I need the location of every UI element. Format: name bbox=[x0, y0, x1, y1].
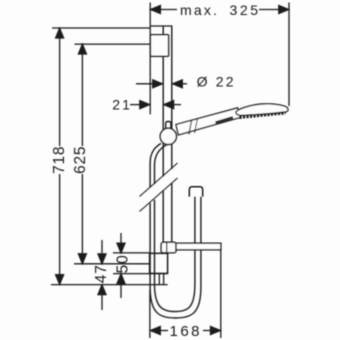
node: max325 left arrowhead bbox=[151, 6, 161, 14]
handle joint line 1 bbox=[189, 121, 192, 135]
handshower handle bbox=[176, 108, 240, 135]
svg-text:47: 47 bbox=[93, 264, 110, 283]
wire: 47 dimension line lower bbox=[101, 295, 103, 311]
node: 625 top arrowhead bbox=[78, 44, 86, 54]
node: 47 upper arrowhead pointing down bbox=[98, 254, 106, 264]
wire: 168 dimension line bbox=[160, 330, 168, 332]
wire: 50 dimension line lower bbox=[120, 284, 122, 298]
svg-text:168: 168 bbox=[170, 323, 203, 340]
wall bar tube right edge bbox=[171, 26, 173, 242]
wall bar tube left edge bbox=[162, 26, 164, 242]
bar bottom stub left bbox=[158, 274, 160, 285]
svg-text:625: 625 bbox=[72, 146, 89, 174]
shelf slider collar bbox=[161, 242, 176, 252]
wire: 625 top extension line bbox=[75, 43, 151, 45]
node: 47 lower arrowhead pointing up bbox=[98, 285, 106, 295]
node: 168 left arrowhead bbox=[151, 327, 161, 335]
wire: 718/47 bottom extension line bbox=[51, 284, 168, 286]
handshower head body bbox=[236, 104, 288, 116]
node: 625 bottom arrowhead bbox=[78, 254, 86, 264]
node: 718 bottom arrowhead bbox=[56, 275, 64, 285]
wire: 47 dimension line upper bbox=[101, 240, 103, 255]
wire: dimension max325 right extension line bbox=[288, 3, 290, 107]
node: 21 left arrowhead bbox=[140, 101, 150, 109]
slider knob stub bbox=[166, 122, 171, 130]
slider knob circle bbox=[160, 128, 176, 144]
wire: 718 top extension line bbox=[52, 27, 150, 29]
shelf collar divider bbox=[166, 243, 168, 252]
shelf arm bbox=[176, 243, 221, 250]
svg-text:718: 718 bbox=[51, 146, 68, 174]
wire: 718 dimension line bbox=[59, 37, 61, 146]
node: max325 right arrowhead bbox=[279, 6, 289, 14]
bar bottom stub right bbox=[163, 274, 165, 285]
wall bracket bottom box bbox=[150, 253, 168, 273]
hose outer edge bbox=[150, 143, 201, 318]
node: diameter22 left arrowhead bbox=[153, 80, 163, 88]
wire: max325 dimension line bbox=[159, 9, 177, 11]
wall bar top cap bbox=[150, 25, 172, 27]
wire: 168 right extension line bbox=[220, 250, 222, 338]
hose inner edge bbox=[155, 145, 195, 312]
wire: 168 left extension line bbox=[149, 290, 151, 338]
wire: 21 dimension line left bbox=[130, 104, 140, 106]
svg-text:Ø 22: Ø 22 bbox=[197, 74, 236, 90]
svg-text:max.: max. bbox=[180, 2, 219, 18]
hose end nub bbox=[189, 187, 202, 197]
node: diameter22 right arrowhead bbox=[173, 80, 183, 88]
wall bracket top box bbox=[150, 35, 168, 56]
node: 50 upper arrowhead pointing down bbox=[117, 243, 125, 253]
wire: dimension max325 left extension / bar reference line bbox=[149, 3, 151, 115]
head spray face teeth bbox=[240, 113, 286, 118]
node: 718 top arrowhead bbox=[56, 28, 64, 38]
wire: diameter22 dimension line left bbox=[136, 83, 153, 85]
wire: diameter22 dimension line right bbox=[182, 83, 187, 85]
break mark slash lower bbox=[140, 178, 178, 212]
svg-text:50: 50 bbox=[114, 254, 131, 273]
node: 168 right arrowhead bbox=[211, 327, 221, 335]
node: 50 lower arrowhead pointing up bbox=[117, 274, 125, 284]
node: 21 right arrowhead bbox=[164, 101, 174, 109]
handle dark select streak bbox=[216, 117, 234, 122]
wire: 21 dimension line right bbox=[173, 104, 181, 106]
break mark slash upper bbox=[140, 163, 178, 197]
wire: 625/47 shared extension line bbox=[74, 263, 150, 265]
wire: 625 dimension line bbox=[81, 53, 83, 146]
wire: 50/bracket bottom extension line bbox=[113, 273, 168, 275]
svg-text:21: 21 bbox=[112, 96, 132, 112]
wire: 50 dimension line upper bbox=[120, 233, 122, 244]
handle joint line 2 bbox=[195, 119, 198, 133]
svg-text:325: 325 bbox=[230, 2, 261, 18]
wire: 50 top extension line bbox=[113, 252, 150, 254]
